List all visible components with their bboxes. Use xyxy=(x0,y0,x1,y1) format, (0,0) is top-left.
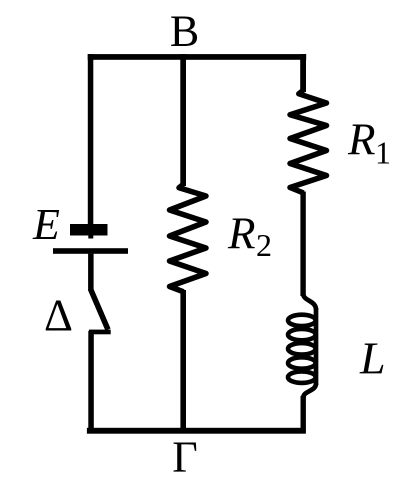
resistor R2 xyxy=(170,185,207,292)
inductor L right connector xyxy=(314,308,319,385)
inductor L coil loop 2 xyxy=(288,329,316,340)
svg-text:R: R xyxy=(227,209,256,259)
switch Delta blade xyxy=(90,289,108,330)
svg-text:1: 1 xyxy=(375,135,391,171)
battery E short thick plate xyxy=(70,224,108,236)
svg-text:Δ: Δ xyxy=(44,291,73,341)
wire inductor to bottom rail xyxy=(301,396,306,434)
inductor L bottom hook xyxy=(303,384,316,399)
svg-text:2: 2 xyxy=(256,227,272,263)
resistor R1 xyxy=(290,91,327,194)
wire left branch lower (switch to bottom rail) xyxy=(88,331,94,434)
inductor L top hook xyxy=(303,294,316,310)
svg-text:Γ: Γ xyxy=(172,433,197,482)
wire top horizontal B rail xyxy=(88,54,307,60)
inductor L coil loop 5 xyxy=(288,372,316,383)
battery wire stub through thick plate xyxy=(88,233,93,239)
inductor L coil loop 1 xyxy=(288,315,316,326)
wire battery to switch xyxy=(88,254,94,291)
battery E long thin plate xyxy=(53,248,128,254)
svg-text:B: B xyxy=(170,7,199,56)
svg-text:E: E xyxy=(32,200,60,249)
wire middle branch lower (R2 to bottom rail) xyxy=(180,290,186,434)
wire bottom horizontal Gamma rail xyxy=(87,428,306,434)
inductor L coil loop 3 xyxy=(288,343,316,354)
switch Delta lower contact xyxy=(89,330,111,335)
inductor L coil loop 4 xyxy=(288,357,316,368)
svg-text:L: L xyxy=(359,333,386,384)
wire R1 to inductor L xyxy=(300,192,305,297)
svg-text:R: R xyxy=(347,115,376,165)
wire right branch upper (top rail to R1) xyxy=(300,54,306,92)
wire left branch upper (top rail to battery) xyxy=(88,54,94,225)
wire middle branch upper (top rail to R2) xyxy=(180,54,186,186)
